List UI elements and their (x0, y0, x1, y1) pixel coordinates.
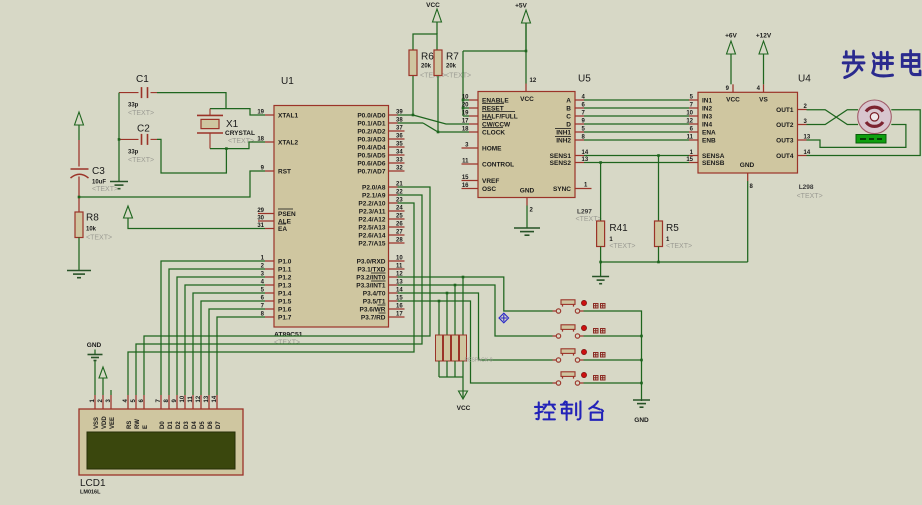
svg-text:P3.3/INT1: P3.3/INT1 (356, 283, 386, 290)
resistor R6 20k (409, 50, 417, 76)
LCD pin VEE (3) (110, 395, 112, 409)
wire P1.4 to LCD D4 (193, 293, 265, 395)
svg-text:<TEXT>: <TEXT> (666, 243, 692, 250)
wire button bus to ground (584, 311, 642, 401)
ground below R41 (592, 276, 609, 278)
svg-text:R7: R7 (446, 52, 459, 63)
svg-text:OSC: OSC (482, 186, 496, 193)
wire OUT1/OUT2 crossing to motor (807, 110, 859, 125)
wire C1 to XTAL1 node (157, 93, 226, 109)
U1 pin P3.6/WR (16) (389, 308, 405, 310)
U1 pin P0.0/AD0 (39) (389, 114, 398, 116)
svg-text:P3.7/RD: P3.7/RD (361, 315, 386, 322)
svg-text:10: 10 (462, 95, 469, 101)
svg-text:14: 14 (212, 395, 218, 402)
wire P1.3 to LCD D3 (185, 285, 265, 395)
svg-text:IN2: IN2 (702, 106, 713, 113)
IC U5 L297 stepper controller body (478, 92, 575, 198)
svg-text:+6V: +6V (725, 33, 737, 40)
svg-text:OUT1: OUT1 (776, 107, 794, 114)
svg-text:VCC: VCC (726, 97, 740, 104)
svg-text:IN1: IN1 (702, 98, 713, 105)
svg-text:33p: 33p (128, 103, 139, 109)
red indicator dot for button jiasu (581, 300, 586, 305)
LCD pin D0 (7) (160, 395, 162, 409)
svg-text:LM016L: LM016L (80, 490, 101, 496)
stepper motor step display (856, 135, 886, 144)
svg-text:RW: RW (135, 419, 141, 429)
wire U5 to U4 row y=155.5 (584, 155, 689, 157)
wire VCC to R6/R7 tops (413, 34, 437, 50)
svg-text:P0.1/AD1: P0.1/AD1 (357, 121, 386, 128)
svg-text:P0.6/AD6: P0.6/AD6 (357, 161, 386, 168)
svg-text:25: 25 (396, 214, 403, 220)
svg-text:ENB: ENB (702, 138, 716, 145)
svg-text:P3.6/WR: P3.6/WR (359, 307, 385, 314)
svg-text:10uF: 10uF (92, 180, 106, 186)
U5 pin A (4) (575, 99, 584, 101)
svg-text:VS: VS (759, 97, 768, 104)
U1 pin P3.7/RD (17) (389, 316, 405, 318)
U5 pin B (6) (575, 107, 584, 109)
U1 pin RST (9) (265, 170, 274, 172)
svg-text:34: 34 (396, 150, 403, 156)
resistor R7 20k (434, 50, 442, 76)
wire P2.0 to LCD E (144, 187, 430, 395)
svg-text:P1.4: P1.4 (278, 291, 292, 298)
svg-text:<TEXT>: <TEXT> (92, 186, 118, 193)
svg-text:CRYSTAL: CRYSTAL (225, 130, 255, 137)
svg-text:L298: L298 (799, 184, 814, 191)
svg-text:GND: GND (520, 188, 535, 195)
U1 pin P2.6/A14 (27) (389, 234, 405, 236)
svg-text:INH2: INH2 (556, 138, 571, 145)
LCD pin VSS (1) (94, 395, 96, 409)
U5 pin C (7) (575, 115, 584, 117)
wire P1.1 to LCD D1 (169, 269, 265, 395)
svg-text:GND: GND (740, 162, 755, 169)
wire R8 to ground (78, 238, 80, 271)
svg-text:37: 37 (396, 126, 403, 132)
svg-text:+12V: +12V (756, 33, 772, 40)
capacitor C2 (119, 138, 139, 140)
wire P1.2 to LCD D2 (177, 277, 265, 395)
U5 pin CW/CCW (17) (469, 123, 478, 125)
U4 pin IN2 (7) (689, 107, 698, 109)
U1 pin P1.0 (1) (265, 260, 274, 262)
wire P1.6 to LCD D6 (209, 309, 265, 395)
svg-text:GND: GND (87, 342, 102, 349)
svg-text:P1.5: P1.5 (278, 299, 292, 306)
U5 pin CLOCK (18) (469, 131, 478, 133)
svg-text:11: 11 (188, 395, 194, 402)
wire P3.3 to button jiansu (398, 285, 553, 336)
U5 pin INH1 (5) (575, 131, 584, 133)
svg-text:LCD1: LCD1 (80, 478, 106, 489)
U5 pin D (9) (575, 123, 584, 125)
U1 pin P1.3 (4) (265, 284, 274, 286)
U4 pin OUT1 (2) (798, 109, 807, 111)
LCD pin D5 (12) (200, 395, 202, 409)
svg-text:<TEXT>: <TEXT> (128, 157, 154, 164)
svg-text:P3.0/RXD: P3.0/RXD (357, 259, 386, 266)
svg-text:D: D (566, 122, 571, 129)
svg-text:P1.7: P1.7 (278, 315, 292, 322)
U4 pin IN4 (12) (689, 123, 698, 125)
wire +5V to U5 VCC pin 12 (525, 23, 527, 84)
U4 pin ENA (6) (689, 131, 698, 133)
svg-text:D7: D7 (216, 421, 222, 429)
svg-text:18: 18 (462, 127, 469, 133)
U1 pin P1.2 (3) (265, 276, 274, 278)
wire OUT3 to motor right lower (807, 125, 906, 148)
svg-text:+5V: +5V (515, 3, 527, 10)
svg-text:U1: U1 (281, 76, 294, 87)
U1 pin P0.4/AD4 (35) (389, 146, 405, 148)
wire crystal top to U1 XTAL1 (210, 109, 265, 115)
wire P0.0 to U5 CW/CCW with R6 pullup (398, 114, 414, 116)
svg-text:CLOCK: CLOCK (482, 130, 505, 137)
svg-text:P2.5/A13: P2.5/A13 (358, 225, 385, 232)
wire RST net (79, 171, 265, 197)
svg-text:P2.1/A9: P2.1/A9 (362, 193, 386, 200)
LCD pin D2 (9) (176, 395, 178, 409)
U1 pin XTAL1 (19) (265, 114, 274, 116)
U1 pin EA (31) (265, 228, 274, 230)
svg-text:U4: U4 (798, 74, 811, 85)
ground below R8 (67, 270, 91, 272)
resistor R5 (658, 156, 660, 222)
svg-text:C3: C3 (92, 166, 105, 177)
U5 pin SYNC (1) unconnected stub (575, 188, 592, 190)
U4 pin GND (8) (747, 173, 749, 181)
svg-text:X1: X1 (226, 119, 239, 130)
svg-text:10: 10 (180, 395, 186, 402)
caption stepper motor (Chinese) blue (843, 51, 920, 78)
button jiasu (556, 309, 560, 313)
U1 pin P1.4 (5) (265, 292, 274, 294)
svg-text:RESPACK-8: RESPACK-8 (465, 358, 493, 364)
U1 pin P0.2/AD2 (37) (389, 130, 405, 132)
origin marker blue diamond (499, 313, 509, 323)
U1 pin XTAL2 (18) (265, 141, 274, 143)
U1 pin P0.1/AD1 (38) (389, 122, 398, 124)
svg-text:INH1: INH1 (556, 130, 571, 137)
U4 pin VS (4) to +12V (763, 84, 765, 92)
U5 pin INH2 (8) (575, 139, 584, 141)
svg-text:RST: RST (278, 169, 291, 176)
wire P3.2 to button jiasu (398, 277, 553, 311)
U1 pin P2.7/A15 (28) (389, 242, 405, 244)
stepper motor symbol (858, 100, 892, 134)
U5 pin RESET (20) (469, 107, 478, 109)
svg-text:P1.6: P1.6 (278, 307, 292, 314)
label for button fanzhuan (594, 376, 599, 381)
svg-text:EA: EA (278, 226, 287, 233)
svg-text:<TEXT>: <TEXT> (609, 243, 635, 250)
svg-text:D0: D0 (160, 421, 166, 429)
svg-text:ALE: ALE (278, 219, 292, 226)
U4 pin SENSB (15) (689, 162, 698, 164)
LCD pin E (6) (143, 395, 145, 409)
wire P2.2 to LCD RS (128, 203, 414, 395)
U1 pin P3.3/INT1 (13) (389, 284, 398, 286)
svg-text:P1.3: P1.3 (278, 283, 292, 290)
red indicator dot for button zhengzhuan (581, 349, 586, 354)
LCD pin RS (4) (127, 395, 129, 409)
LCD1 LM016L display (79, 409, 243, 475)
wire P2.1 to LCD RW (136, 195, 422, 395)
svg-text:12: 12 (196, 395, 202, 402)
svg-text:XTAL2: XTAL2 (278, 140, 298, 147)
svg-text:19: 19 (462, 111, 469, 117)
svg-text:30: 30 (257, 216, 264, 222)
svg-text:R8: R8 (86, 213, 99, 224)
svg-text:D6: D6 (208, 421, 214, 429)
wire P1.0 to LCD D0 (161, 261, 265, 395)
svg-text:R6: R6 (421, 52, 434, 63)
svg-text:SENS1: SENS1 (550, 153, 572, 160)
svg-text:HOME: HOME (482, 146, 502, 153)
svg-text:IN3: IN3 (702, 114, 713, 121)
svg-text:AT89C51: AT89C51 (274, 332, 303, 339)
svg-text:R5: R5 (666, 223, 679, 234)
IC U1 AT89C51 microcontroller body (274, 106, 389, 328)
U5 pin SENS1 (14) (575, 155, 584, 157)
svg-text:OUT3: OUT3 (776, 138, 794, 145)
svg-text:D4: D4 (192, 421, 198, 429)
svg-text:OUT2: OUT2 (776, 122, 794, 129)
svg-text:<TEXT>: <TEXT> (797, 193, 823, 200)
wire sense ground bus (600, 247, 602, 263)
U4 pin IN3 (10) (689, 115, 698, 117)
ground below buttons (633, 399, 650, 401)
svg-text:P1.0: P1.0 (278, 259, 292, 266)
wire P3.4 to button zhengzhuan (398, 293, 553, 360)
svg-text:36: 36 (396, 134, 403, 140)
svg-text:P3.1/TXD: P3.1/TXD (357, 267, 385, 274)
wire OUT4 to motor right upper (807, 110, 921, 156)
red indicator dot for button fanzhuan (581, 372, 586, 377)
svg-text:D2: D2 (176, 421, 182, 429)
svg-text:P1.1: P1.1 (278, 267, 292, 274)
U1 pin P0.5/AD5 (34) (389, 154, 405, 156)
svg-text:P3.2/INT0: P3.2/INT0 (356, 275, 386, 282)
svg-text:P1.2: P1.2 (278, 275, 292, 282)
svg-text:P0.7/AD7: P0.7/AD7 (357, 169, 386, 176)
svg-text:10k: 10k (86, 227, 97, 233)
U1 pin P3.2/INT0 (12) (389, 276, 398, 278)
wire EA net (128, 218, 265, 229)
svg-text:VCC: VCC (457, 405, 471, 412)
U1 pin P2.3/A11 (24) (389, 210, 405, 212)
svg-text:ENA: ENA (702, 130, 716, 137)
LCD pin D3 (10) (184, 395, 186, 409)
LCD VEE stub (110, 390, 112, 395)
U1 pin P2.4/A12 (25) (389, 218, 405, 220)
U1 pin P2.5/A13 (26) (389, 226, 405, 228)
U5 pin GND (2) to ground (526, 198, 528, 206)
wire XTAL2 net (210, 142, 265, 149)
svg-text:B: B (566, 106, 571, 113)
svg-text:<TEXT>: <TEXT> (86, 235, 112, 242)
LCD pin D4 (11) (192, 395, 194, 409)
svg-text:<TEXT>: <TEXT> (274, 340, 300, 347)
svg-text:17: 17 (396, 312, 403, 318)
wire U5 to U4 row y=116 (584, 115, 689, 117)
svg-text:VCC: VCC (520, 96, 534, 103)
U4 pin OUT2 (3) (798, 124, 807, 126)
U1 pin P1.6 (7) (265, 308, 274, 310)
svg-text:VREF: VREF (482, 178, 499, 185)
U1 pin PSEN (29) unconnected stub (258, 213, 274, 215)
wire P1.7 to LCD D7 (217, 317, 265, 395)
U4 pin ENB (11) (689, 139, 698, 141)
label for button jiasu (594, 304, 599, 309)
LCD pin RW (5) (135, 395, 137, 409)
capacitor C1 (119, 92, 139, 94)
U5 pin ENABLE (10) (469, 99, 478, 101)
svg-text:OUT4: OUT4 (776, 153, 794, 160)
button zhengzhuan (556, 358, 560, 362)
svg-text:20: 20 (462, 103, 469, 109)
svg-text:15: 15 (462, 175, 469, 181)
svg-text:U5: U5 (578, 74, 591, 85)
svg-text:24: 24 (396, 206, 403, 212)
svg-text:P0.0/AD0: P0.0/AD0 (357, 113, 386, 120)
U1 pin P3.1/TXD (11) (389, 268, 405, 270)
ground below U5 (514, 227, 540, 229)
svg-text:28: 28 (396, 238, 403, 244)
U1 pin P3.4/T0 (14) (389, 292, 398, 294)
svg-text:27: 27 (396, 230, 403, 236)
svg-text:10: 10 (396, 256, 403, 262)
svg-text:P0.5/AD5: P0.5/AD5 (357, 153, 386, 160)
svg-text:33: 33 (396, 158, 403, 164)
wire left capacitor rail (118, 93, 120, 182)
U1 pin P1.7 (8) (265, 316, 274, 318)
svg-text:20k: 20k (446, 64, 457, 70)
svg-text:16: 16 (462, 183, 469, 189)
wire U5 to U4 row y=124 (584, 123, 689, 125)
wire U5 to U4 row y=108 (584, 107, 689, 109)
U4 pin SENSA (1) (689, 155, 698, 157)
svg-text:P3.4/T0: P3.4/T0 (363, 291, 386, 298)
U1 pin P3.5/T1 (15) (389, 300, 398, 302)
button jiansu (556, 334, 560, 338)
caption control console (Chinese) blue (535, 401, 603, 419)
power arrow for LCD VDD (99, 367, 107, 378)
U1 pin ALE (30) unconnected stub (258, 220, 274, 222)
svg-text:13: 13 (204, 395, 210, 402)
wire U5 to U4 row y=140 (584, 139, 689, 141)
svg-text:CONTROL: CONTROL (482, 162, 514, 169)
svg-text:P0.2/AD2: P0.2/AD2 (357, 129, 386, 136)
U1 pin P0.7/AD7 (32) (389, 170, 405, 172)
svg-text:P2.3/A11: P2.3/A11 (359, 209, 386, 216)
U1 pin P1.1 (2) (265, 268, 274, 270)
svg-text:32: 32 (396, 166, 403, 172)
wire P0.1 to U5 CLOCK with R7 pullup (398, 122, 424, 124)
power arrow for EA pin (124, 206, 133, 218)
U1 pin P0.6/AD6 (33) (389, 162, 405, 164)
wire U5 to U4 row y=162.5 (584, 162, 689, 164)
svg-text:VDD: VDD (102, 416, 108, 429)
U1 pin P3.0/RXD (10) (389, 260, 405, 262)
svg-text:29: 29 (257, 208, 264, 214)
svg-text:RS: RS (127, 421, 133, 429)
svg-text:P2.0/A8: P2.0/A8 (362, 185, 386, 192)
resistor R41 (600, 163, 602, 222)
svg-text:35: 35 (396, 142, 403, 148)
svg-text:D1: D1 (168, 421, 174, 429)
U5 pin SENS2 (13) (575, 162, 584, 164)
svg-text:P0.4/AD4: P0.4/AD4 (357, 145, 386, 152)
U5 pin OSC (16) (462, 188, 479, 190)
red indicator dot for button jiansu (581, 325, 586, 330)
svg-text:C: C (566, 114, 571, 121)
svg-text:SENS2: SENS2 (550, 160, 572, 167)
svg-text:<TEXT>: <TEXT> (128, 110, 154, 117)
label for button zhengzhuan (594, 353, 599, 358)
U1 pin P2.2/A10 (23) (389, 202, 398, 204)
U5 pin HALF/FULL (19) (469, 115, 478, 117)
LCD pin D7 (14) (216, 395, 218, 409)
U1 pin P0.3/AD3 (36) (389, 138, 405, 140)
U5 pin HOME (3) (462, 147, 479, 149)
wire P3.5 to button fanzhuan (398, 301, 553, 383)
svg-text:D3: D3 (184, 421, 190, 429)
ground for C1/C2 rail (110, 181, 128, 183)
svg-text:12: 12 (530, 78, 537, 84)
svg-text:17: 17 (462, 119, 469, 125)
svg-text:XTAL1: XTAL1 (278, 113, 298, 120)
svg-text:33p: 33p (128, 150, 139, 156)
resistor pack RESPACK pull-ups (438, 301, 440, 335)
U1 pin P2.0/A8 (21) (389, 186, 398, 188)
resistor R8 10k (75, 212, 83, 238)
svg-text:11: 11 (462, 159, 469, 165)
svg-text:26: 26 (396, 222, 403, 228)
svg-text:VSS: VSS (94, 417, 100, 429)
svg-text:P2.6/A14: P2.6/A14 (358, 233, 385, 240)
U5 pin CONTROL (11) (462, 163, 479, 165)
crystal X1 (197, 114, 223, 116)
U4 pin IN1 (5) (689, 99, 698, 101)
wire U5 to U4 row y=132 (584, 131, 689, 133)
LCD pin VDD (2) (102, 395, 104, 409)
U4 pin OUT3 (13) (798, 139, 807, 141)
svg-text:A: A (566, 98, 571, 105)
svg-text:16: 16 (396, 304, 403, 310)
wire enable bus to +5V (463, 99, 469, 101)
svg-text:P0.3/AD3: P0.3/AD3 (357, 137, 386, 144)
power arrow VCC to RST divider (75, 112, 84, 125)
wire P1.5 to LCD D5 (201, 301, 265, 395)
svg-text:P3.5/T1: P3.5/T1 (363, 299, 386, 306)
svg-text:P2.7/A15: P2.7/A15 (358, 241, 385, 248)
LCD pin D1 (8) (168, 395, 170, 409)
label for button jiansu (594, 329, 599, 334)
svg-text:SENSA: SENSA (702, 153, 725, 160)
svg-text:R41: R41 (609, 223, 628, 234)
power terminal VCC below resistor pack (462, 377, 464, 391)
svg-text:P2.2/A10: P2.2/A10 (358, 201, 385, 208)
svg-text:VEE: VEE (110, 417, 116, 429)
capacitor C3 10uF (71, 168, 89, 170)
U5 pin VREF (15) (462, 180, 479, 182)
LCD pin D6 (13) (208, 395, 210, 409)
